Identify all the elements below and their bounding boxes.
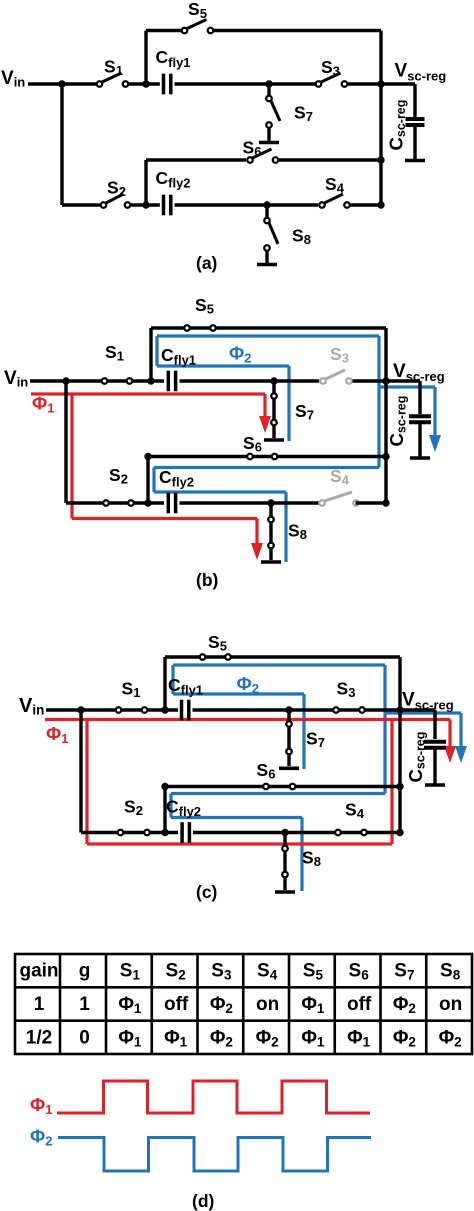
svg-text:Φ1: Φ1 (118, 1027, 142, 1049)
svg-text:1: 1 (79, 994, 90, 1015)
svg-text:S1: S1 (104, 57, 123, 79)
svg-text:S7: S7 (306, 729, 325, 751)
svg-text:S6: S6 (243, 138, 262, 160)
svg-text:(d): (d) (192, 1191, 214, 1211)
svg-text:off: off (164, 994, 189, 1015)
svg-text:S2: S2 (166, 961, 186, 983)
svg-text:S5: S5 (188, 0, 207, 21)
svg-text:Csc-reg: Csc-reg (405, 732, 428, 783)
svg-text:Φ2: Φ2 (439, 1027, 462, 1049)
svg-text:on: on (256, 994, 279, 1015)
svg-text:S8: S8 (302, 848, 321, 870)
svg-text:Csc-reg: Csc-reg (386, 396, 409, 447)
svg-text:S2: S2 (109, 465, 128, 487)
svg-text:Φ2: Φ2 (210, 994, 233, 1016)
svg-text:Cfly2: Cfly2 (156, 168, 191, 191)
svg-text:S1: S1 (120, 961, 141, 983)
svg-text:Φ1: Φ1 (164, 1027, 188, 1049)
svg-text:S7: S7 (295, 401, 314, 423)
svg-text:Φ2: Φ2 (393, 994, 416, 1016)
svg-text:Φ1: Φ1 (118, 994, 142, 1016)
svg-text:S3: S3 (337, 679, 356, 701)
svg-text:Φ2: Φ2 (256, 1027, 279, 1049)
svg-text:Vin: Vin (19, 695, 44, 718)
svg-text:Vin: Vin (4, 368, 28, 390)
svg-text:Cfly1: Cfly1 (168, 675, 203, 698)
svg-text:S4: S4 (325, 174, 345, 196)
svg-text:Φ2: Φ2 (229, 343, 251, 366)
svg-text:Φ2: Φ2 (393, 1027, 416, 1049)
svg-text:S6: S6 (349, 961, 370, 983)
svg-text:Vin: Vin (1, 68, 25, 90)
svg-text:S3: S3 (321, 57, 340, 79)
svg-text:S4: S4 (257, 961, 278, 983)
svg-text:(b): (b) (196, 570, 218, 590)
svg-text:Cfly1: Cfly1 (161, 345, 196, 368)
svg-text:(c): (c) (196, 882, 217, 902)
svg-text:Φ1: Φ1 (301, 1027, 325, 1049)
svg-text:S8: S8 (292, 226, 311, 248)
svg-text:Cfly1: Cfly1 (156, 47, 191, 70)
svg-text:Cfly2: Cfly2 (159, 467, 194, 490)
svg-text:Vsc-reg: Vsc-reg (393, 361, 445, 384)
svg-text:S3: S3 (330, 344, 349, 366)
svg-text:1: 1 (34, 994, 45, 1015)
svg-text:Φ2: Φ2 (237, 673, 259, 696)
svg-text:(a): (a) (196, 253, 217, 273)
svg-text:Csc-reg: Csc-reg (386, 100, 409, 151)
svg-text:Φ1: Φ1 (347, 1027, 371, 1049)
svg-text:S6: S6 (257, 760, 276, 782)
svg-text:S5: S5 (208, 632, 227, 654)
svg-text:Φ1: Φ1 (46, 723, 68, 746)
svg-text:Vsc-reg: Vsc-reg (402, 690, 454, 713)
svg-text:Φ1: Φ1 (30, 1094, 52, 1117)
svg-text:S8: S8 (288, 521, 307, 543)
svg-text:S2: S2 (107, 178, 126, 200)
svg-text:S4: S4 (345, 800, 365, 822)
svg-text:S5: S5 (195, 295, 214, 317)
svg-text:Cfly2: Cfly2 (166, 797, 201, 820)
svg-text:S7: S7 (394, 961, 414, 983)
svg-text:S4: S4 (330, 466, 350, 488)
svg-text:S1: S1 (105, 342, 124, 364)
svg-text:g: g (79, 961, 91, 982)
svg-text:gain: gain (19, 961, 58, 982)
svg-text:Φ2: Φ2 (210, 1027, 233, 1049)
svg-text:1/2: 1/2 (26, 1027, 52, 1048)
svg-text:S5: S5 (303, 961, 324, 983)
svg-text:Φ1: Φ1 (32, 393, 54, 416)
svg-text:S7: S7 (294, 103, 313, 125)
svg-text:Φ2: Φ2 (30, 1126, 52, 1149)
svg-text:S2: S2 (124, 797, 143, 819)
svg-text:0: 0 (79, 1027, 90, 1048)
svg-text:S8: S8 (440, 961, 461, 983)
svg-text:S3: S3 (211, 961, 232, 983)
svg-text:S6: S6 (243, 433, 262, 455)
svg-text:off: off (347, 994, 372, 1015)
svg-text:S1: S1 (122, 679, 141, 701)
svg-text:Φ1: Φ1 (301, 994, 325, 1016)
svg-text:on: on (439, 994, 462, 1015)
svg-text:Vsc-reg: Vsc-reg (395, 61, 447, 84)
